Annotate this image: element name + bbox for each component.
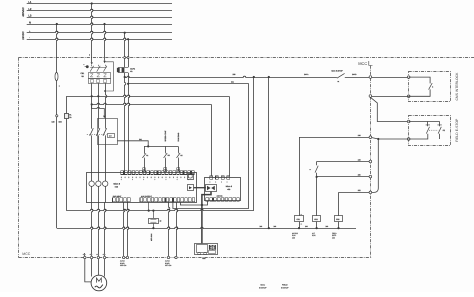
contactor coil box 1-0 (108, 134, 115, 138)
comm cable down to keypad (201, 192, 211, 244)
svg-text:246: 246 (358, 134, 361, 137)
svg-text:MCC: MCC (22, 252, 30, 256)
junction phase1 wire96 (91, 95, 93, 97)
svg-text:MCC: MCC (261, 284, 266, 287)
soft starter U1 box (87, 173, 197, 203)
svg-text:MCC: MCC (358, 61, 367, 66)
motor M1 (91, 275, 107, 291)
starter input circles (89, 181, 108, 202)
svg-text:Micro II: Micro II (226, 185, 233, 188)
breaker CB1 aux loop (104, 62, 113, 92)
svg-text:250: 250 (358, 173, 361, 176)
wire 250 to CR2 (316, 176, 370, 216)
junction + feed to wire 240 (124, 76, 126, 78)
second channel drop (372, 139, 379, 192)
drop wire B down (248, 84, 250, 209)
label Micro II (114, 183, 121, 189)
svg-text:8: 8 (169, 176, 170, 179)
relay coil CR2 (313, 216, 321, 230)
svg-text:N: N (29, 21, 31, 24)
svg-text:8: 8 (166, 176, 167, 179)
routing wire 210 return (66, 209, 253, 210)
legend FIELD E-STOP (281, 284, 289, 290)
labels 244 on rail (260, 225, 329, 228)
svg-text:8: 8 (132, 176, 133, 179)
svg-text:SUP NEUT: SUP NEUT (113, 195, 122, 198)
switch row bus 146 (144, 145, 178, 147)
fuse SUP4 (2-pole, filled) (117, 67, 135, 73)
earth stub (84, 253, 86, 257)
wire 96 drop to controller (229, 96, 231, 176)
legend MCC E-STOP (259, 284, 267, 290)
MCC enclosure boundary bottom (19, 257, 373, 259)
boundary terminal 246 y137.2 (358, 134, 372, 139)
junction on + bus (124, 32, 126, 34)
controller U2 box (205, 178, 241, 201)
control wire 96 (66, 95, 229, 96)
DOL relay feed (153, 211, 155, 218)
svg-text:400VAC: 400VAC (22, 7, 25, 17)
svg-text:140: 140 (52, 121, 55, 124)
field e-stop contacts (409, 122, 445, 140)
junction - feed to wire 241 (127, 83, 129, 85)
svg-text:241: 241 (231, 81, 234, 84)
svg-text:252: 252 (358, 189, 361, 192)
drop wire to rail x269 (268, 77, 270, 228)
CMS terminals (407, 76, 410, 98)
junction rail210 DOL2 (152, 210, 154, 212)
label MCC bottom-left (22, 252, 30, 256)
svg-text:8: 8 (180, 176, 181, 179)
phase wire 3 (106, 83, 107, 181)
breaker CB1 lower contact box (89, 79, 111, 84)
wire 240 to CMS (372, 77, 409, 79)
CMS interlock box (409, 72, 451, 102)
link down to field e-stop (370, 97, 408, 121)
CMS internal circuit (409, 77, 434, 96)
label speed cont vertical (164, 131, 167, 142)
starter comm port (188, 185, 194, 191)
wire L1 feed down to breaker (89, 4, 93, 63)
svg-text:1: 1 (89, 53, 90, 56)
return rail 228 (57, 227, 356, 228)
terminal 4D1 (90, 253, 93, 259)
starter bottom-left terminal group (113, 195, 131, 202)
svg-text:FIELD E-STOP: FIELD E-STOP (455, 118, 459, 142)
boundary terminal 248 y161.5 (358, 158, 372, 163)
CMS return wire (372, 96, 409, 98)
label FIELD E-STOP (455, 118, 459, 142)
aux drops x168 (169, 202, 170, 257)
left fuse drop F1 (65, 96, 73, 210)
svg-text:8: 8 (143, 176, 144, 179)
wire from N down left side to return rail (57, 24, 58, 228)
node L3 bus (27, 15, 172, 18)
svg-text:8: 8 (121, 176, 122, 179)
field e-stop box (409, 116, 451, 146)
junction on - bus (127, 38, 129, 40)
boundary terminal 252 y192.4 (358, 189, 372, 194)
phase wire 1 breaker to starter (91, 83, 93, 181)
start switch A1 (142, 146, 148, 171)
svg-text:241: 241 (139, 138, 142, 141)
svg-text:8: 8 (125, 176, 126, 179)
svg-text:8: 8 (154, 176, 155, 179)
connector on left N wire (52, 115, 62, 124)
svg-text:1-0: 1-0 (109, 135, 112, 138)
svg-text:x1: x1 (301, 214, 303, 216)
svg-text:8: 8 (184, 176, 185, 179)
svg-text:A2: A2 (180, 154, 182, 157)
node L2 bus (27, 8, 172, 11)
label MCC E-STOP switch (332, 69, 344, 83)
svg-text:A1: A1 (146, 154, 148, 157)
svg-text:8: 8 (147, 176, 148, 179)
svg-text:CR3: CR3 (336, 218, 339, 221)
svg-text:F1: F1 (69, 113, 71, 116)
phase drop 2 (99, 202, 100, 256)
svg-text:L3: L3 (28, 15, 31, 18)
wire 246 to CR1 (299, 137, 369, 216)
wire 241 horizontal (128, 81, 249, 84)
starter bottom-right terminal group (140, 195, 195, 202)
label 400VAC (22, 7, 25, 17)
svg-text:CMS INTERLOCK: CMS INTERLOCK (455, 72, 459, 101)
phase wire 2 (98, 83, 100, 181)
fuse on left N wire (55, 73, 60, 88)
svg-text:8: 8 (158, 176, 159, 179)
starter option module (188, 174, 194, 180)
junction on N at x57 (56, 23, 58, 25)
svg-text:8: 8 (136, 176, 137, 179)
svg-text:24VDC: 24VDC (22, 31, 25, 39)
wire -24V feed down (127, 39, 129, 67)
node -24V bus (27, 37, 172, 40)
contactor main contacts (87, 128, 107, 136)
svg-text:L2: L2 (28, 8, 31, 11)
aux drops x176 (177, 202, 178, 257)
keypad HIM box (195, 244, 218, 261)
svg-text:AUX OUTPUT: AUX OUTPUT (141, 195, 152, 198)
drop wire A down (253, 77, 255, 211)
aux drops x127 (128, 202, 129, 257)
wire +24V feed down (124, 33, 126, 68)
junction rail210 DOL1 (148, 210, 150, 212)
junction phase2 wire96 (97, 95, 99, 97)
phase drop 3 (105, 202, 106, 256)
svg-text:248: 248 (358, 158, 361, 161)
controller top terminals (210, 176, 230, 184)
junction on N at x104 (103, 23, 105, 25)
svg-text:8: 8 (140, 176, 141, 179)
label CR3 below (332, 232, 337, 240)
routing wire 205 (180, 201, 207, 205)
node L1 400VAC bus (27, 1, 172, 4)
label 24VDC (22, 31, 25, 39)
label CR2 below (312, 232, 316, 237)
phase drop 1 to motor terminals (92, 202, 93, 256)
svg-text:RUN ENAB: RUN ENAB (177, 132, 180, 142)
DOL aux drop from starter (148, 202, 150, 211)
label CMS INTERLOCK (455, 72, 459, 101)
breaker CB1 overload box (89, 73, 111, 79)
wire +24V below fuse (125, 73, 126, 173)
relay coil CR1 (295, 214, 304, 229)
arrowhead on N feed at boundary (103, 61, 105, 64)
boundary terminal 242 y77.0 (369, 76, 372, 79)
wire 252 to CR3 (339, 192, 370, 215)
field e-stop terminals (407, 120, 410, 140)
wire N feed down to breaker (105, 24, 106, 61)
svg-text:E-STOP: E-STOP (281, 286, 289, 289)
node N bus (27, 21, 172, 24)
svg-text:k: k (432, 86, 433, 89)
MCC enclosure boundary top (19, 57, 474, 59)
starter top row labels (121, 176, 193, 181)
label DOL vertical (150, 233, 153, 241)
svg-text:8: 8 (177, 176, 178, 179)
terminal 4D0 (83, 253, 86, 259)
wire 104 drop to controller (211, 104, 213, 176)
wire 240 with MCC E-STOP (125, 73, 370, 78)
breaker CB1 terminal dot (84, 64, 89, 68)
junction on L1 (91, 2, 93, 4)
aux drops x123 (124, 202, 125, 257)
contactor coil feed path (92, 104, 106, 118)
junction phase1 wire104 (91, 103, 93, 105)
svg-text:SPEED CONT: SPEED CONT (164, 131, 167, 142)
svg-text:1N0: 1N0 (59, 121, 62, 124)
MCC enclosure boundary right (369, 66, 371, 258)
svg-text:8: 8 (173, 176, 174, 179)
svg-text:CR1: CR1 (297, 218, 300, 221)
svg-text:x2: x2 (301, 224, 303, 226)
field estop return to 246 (372, 137, 409, 140)
junction 240 at x254 (253, 76, 255, 78)
svg-text:Micro II: Micro II (114, 183, 121, 186)
contactor box outline (98, 119, 118, 145)
comm cable starter to controller (194, 187, 206, 189)
feed wire 241 to switch row (117, 138, 148, 147)
node +24V bus (27, 30, 172, 33)
arrowhead into breaker pole 1 (91, 62, 93, 65)
DOL relay to rail (152, 223, 154, 229)
svg-text:CR2: CR2 (314, 218, 317, 221)
terminal pair 4D7 4D8 (165, 256, 177, 267)
control wire 104 (92, 103, 212, 104)
terminal 4D2 (96, 253, 99, 259)
boundary terminal 244 y96.0 (369, 95, 372, 98)
junction 240 at x269 (268, 76, 270, 78)
svg-text:8: 8 (151, 176, 152, 179)
svg-text:FIELD: FIELD (282, 284, 288, 287)
motor M1 wires (85, 259, 105, 282)
breaker CB1 poles (90, 65, 107, 72)
svg-text:MCC E-STOP: MCC E-STOP (332, 69, 344, 72)
label CB1 (81, 72, 85, 78)
controller bottom terminal row (206, 195, 240, 202)
svg-text:8: 8 (128, 176, 129, 179)
svg-text:1: 1 (59, 85, 60, 88)
starter top terminal row (121, 171, 194, 175)
junction rail x269 (268, 227, 270, 229)
svg-text:CB1: CB1 (81, 72, 85, 75)
svg-text:8: 8 (162, 176, 163, 179)
label MCC top-right (358, 61, 372, 66)
svg-text:238: 238 (233, 73, 236, 76)
label run enable vertical (177, 132, 180, 142)
svg-text:E-STOP: E-STOP (259, 286, 267, 289)
run switch A2 (177, 146, 183, 171)
boundary terminal 250 y176.6 (358, 173, 372, 178)
svg-text:L1: L1 (28, 1, 31, 4)
wire -24V below fuse (129, 73, 130, 173)
controller comm box (206, 185, 217, 192)
MCC enclosure boundary left (18, 58, 20, 258)
terminal pair 4D5 4D6 (120, 256, 129, 267)
label Micro II second (226, 185, 233, 191)
wire 248 with bypass switch (310, 162, 370, 178)
speed switch SS (164, 146, 171, 171)
label CR1 below (292, 232, 299, 240)
routing wire 208 (173, 202, 249, 209)
relay coil CR3 (335, 216, 343, 230)
DOL relay box (149, 219, 162, 224)
terminal 4D3 (103, 253, 106, 259)
